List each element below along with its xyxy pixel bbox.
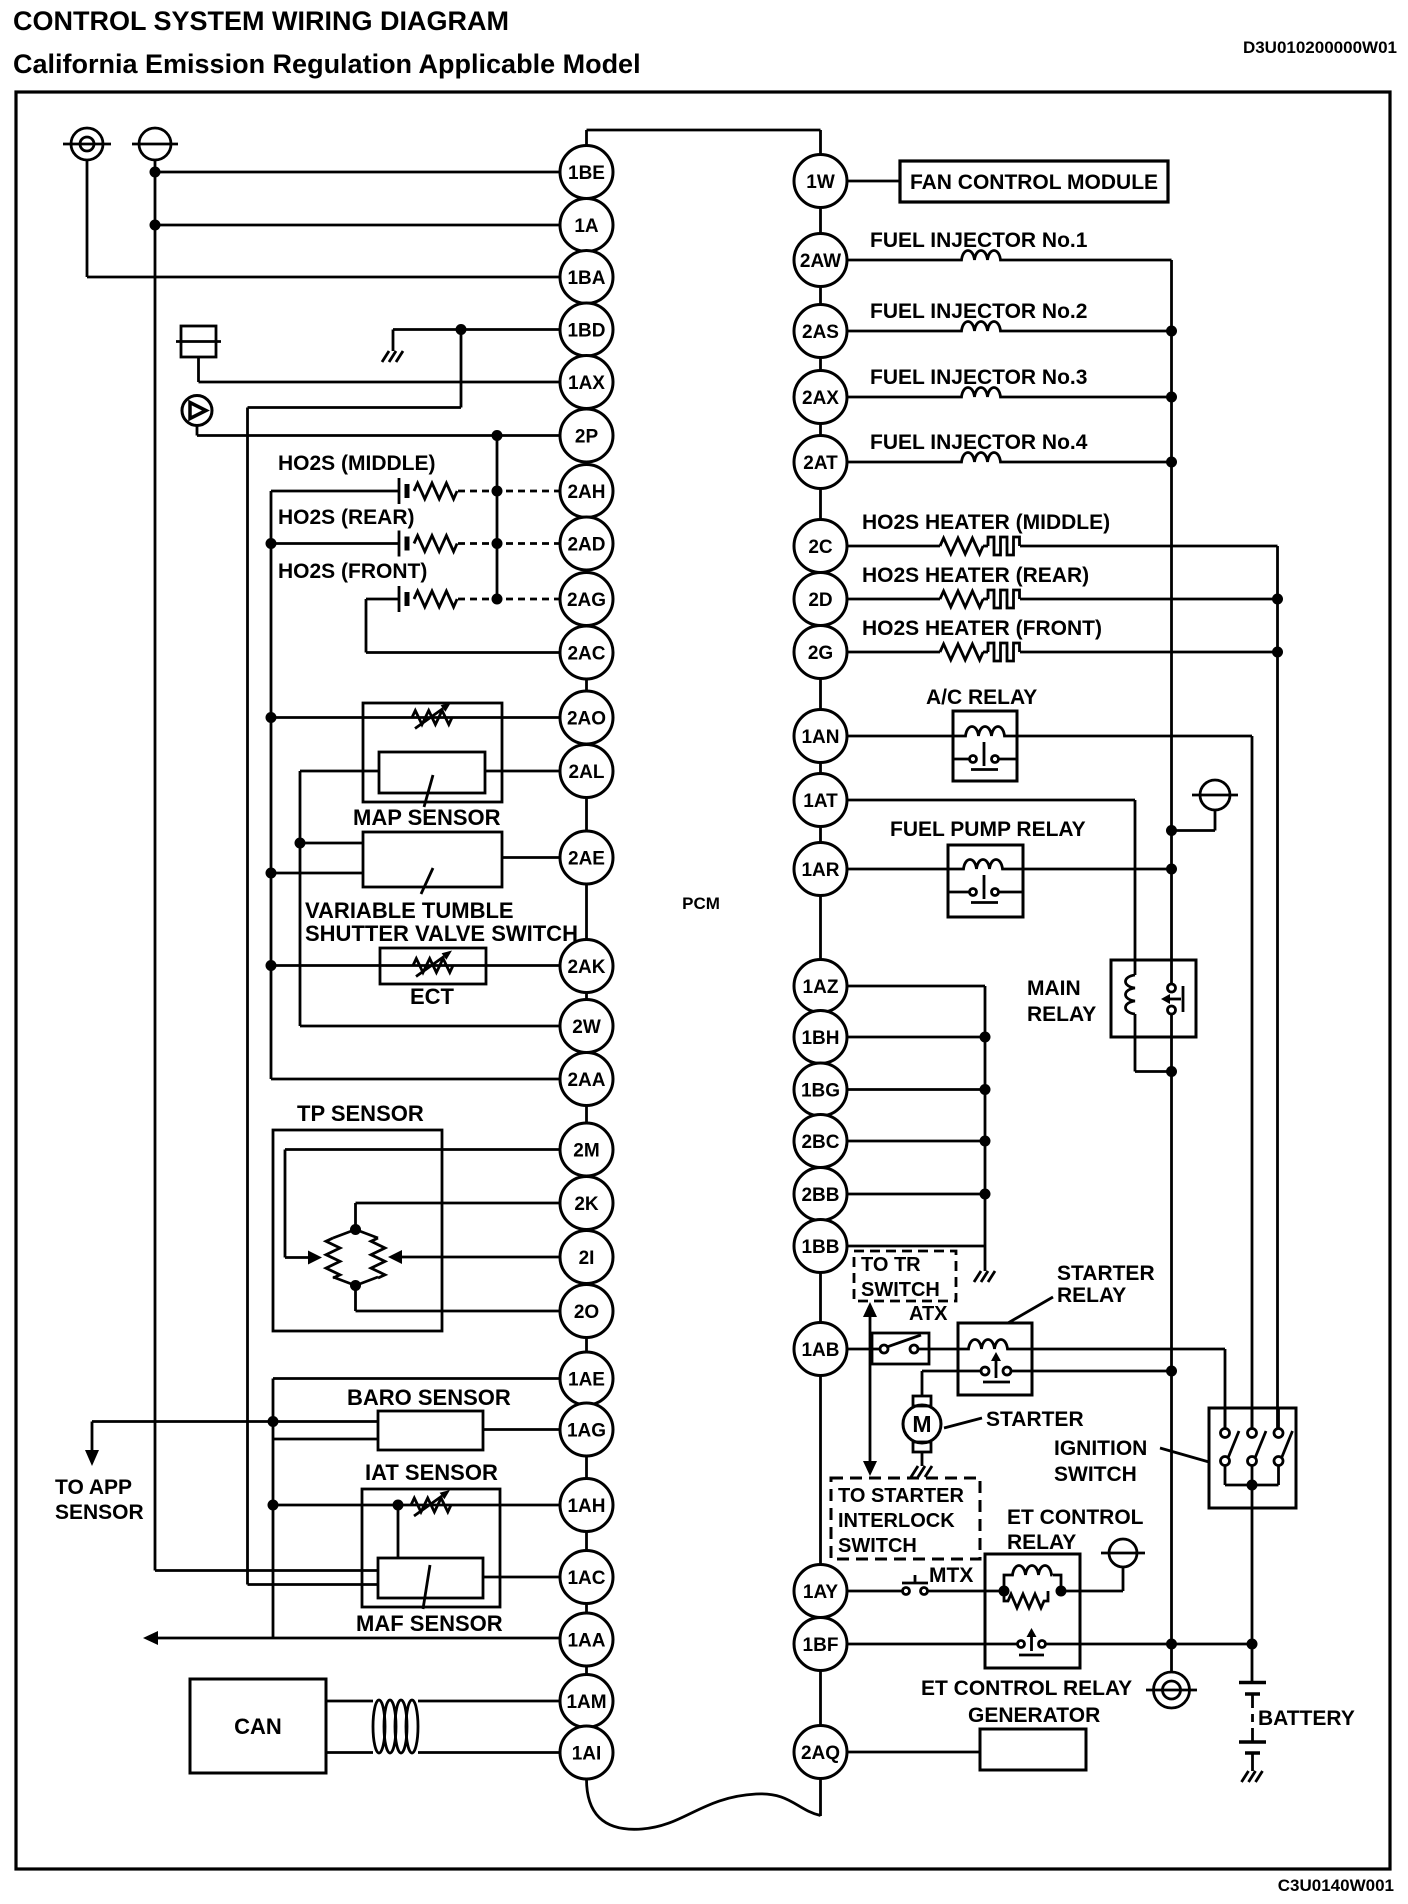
svg-text:1AM: 1AM bbox=[566, 1692, 606, 1713]
svg-text:ATX: ATX bbox=[909, 1303, 948, 1325]
svg-text:2AL: 2AL bbox=[569, 762, 605, 783]
svg-text:HO2S HEATER (MIDDLE): HO2S HEATER (MIDDLE) bbox=[862, 511, 1110, 534]
svg-text:2AG: 2AG bbox=[567, 590, 606, 611]
svg-text:2G: 2G bbox=[808, 643, 833, 664]
svg-text:2K: 2K bbox=[574, 1194, 599, 1215]
svg-text:2AX: 2AX bbox=[802, 388, 839, 409]
svg-text:1AG: 1AG bbox=[567, 1421, 606, 1442]
svg-text:1A: 1A bbox=[574, 216, 599, 237]
svg-text:2AC: 2AC bbox=[567, 644, 605, 665]
svg-text:California Emission Regulation: California Emission Regulation Applicabl… bbox=[13, 49, 641, 79]
svg-text:FAN CONTROL MODULE: FAN CONTROL MODULE bbox=[910, 171, 1158, 194]
svg-text:IGNITION: IGNITION bbox=[1054, 1437, 1147, 1460]
svg-text:FUEL INJECTOR No.4: FUEL INJECTOR No.4 bbox=[870, 431, 1088, 454]
svg-text:CONTROL SYSTEM WIRING DIAGRAM: CONTROL SYSTEM WIRING DIAGRAM bbox=[13, 6, 509, 36]
svg-text:ECT: ECT bbox=[410, 984, 455, 1009]
svg-text:BATTERY: BATTERY bbox=[1258, 1707, 1355, 1730]
svg-text:IAT SENSOR: IAT SENSOR bbox=[365, 1460, 498, 1485]
svg-text:BARO SENSOR: BARO SENSOR bbox=[347, 1385, 511, 1410]
svg-text:1BG: 1BG bbox=[801, 1081, 840, 1102]
svg-text:RELAY: RELAY bbox=[1027, 1003, 1096, 1026]
svg-text:HO2S HEATER (FRONT): HO2S HEATER (FRONT) bbox=[862, 617, 1102, 640]
svg-text:1BD: 1BD bbox=[567, 321, 605, 342]
svg-text:RELAY: RELAY bbox=[1057, 1284, 1126, 1307]
svg-text:1AE: 1AE bbox=[568, 1370, 605, 1391]
svg-text:FUEL INJECTOR No.1: FUEL INJECTOR No.1 bbox=[870, 229, 1088, 252]
svg-text:2AO: 2AO bbox=[567, 709, 606, 730]
svg-text:MAF SENSOR: MAF SENSOR bbox=[356, 1611, 503, 1636]
svg-text:1BH: 1BH bbox=[801, 1028, 839, 1049]
svg-text:1AN: 1AN bbox=[801, 727, 839, 748]
svg-text:2AD: 2AD bbox=[567, 535, 605, 556]
svg-text:2AW: 2AW bbox=[800, 251, 841, 272]
svg-text:SHUTTER VALVE SWITCH: SHUTTER VALVE SWITCH bbox=[305, 921, 578, 946]
svg-text:ET CONTROL RELAY: ET CONTROL RELAY bbox=[921, 1677, 1132, 1700]
svg-text:1AY: 1AY bbox=[803, 1582, 839, 1603]
svg-text:MTX: MTX bbox=[929, 1564, 973, 1587]
svg-text:2O: 2O bbox=[574, 1302, 599, 1323]
svg-text:2AH: 2AH bbox=[567, 482, 605, 503]
svg-text:2AA: 2AA bbox=[567, 1070, 605, 1091]
svg-text:1BB: 1BB bbox=[801, 1237, 839, 1258]
svg-text:1AX: 1AX bbox=[568, 373, 605, 394]
svg-text:2M: 2M bbox=[573, 1141, 599, 1162]
svg-text:A/C RELAY: A/C RELAY bbox=[926, 686, 1037, 709]
svg-text:TO APP: TO APP bbox=[55, 1476, 132, 1499]
svg-text:2AK: 2AK bbox=[567, 957, 605, 978]
svg-text:2BB: 2BB bbox=[801, 1185, 839, 1206]
svg-text:1AB: 1AB bbox=[801, 1340, 839, 1361]
svg-text:FUEL INJECTOR No.3: FUEL INJECTOR No.3 bbox=[870, 366, 1087, 389]
svg-text:SWITCH: SWITCH bbox=[1054, 1463, 1137, 1486]
svg-text:1W: 1W bbox=[806, 172, 835, 193]
svg-text:HO2S (FRONT): HO2S (FRONT) bbox=[278, 560, 427, 583]
svg-text:PCM: PCM bbox=[682, 894, 720, 913]
svg-text:TO TR: TO TR bbox=[861, 1254, 921, 1276]
svg-text:2AS: 2AS bbox=[802, 322, 839, 343]
svg-text:C3U0140W001: C3U0140W001 bbox=[1278, 1876, 1394, 1895]
svg-text:HO2S HEATER (REAR): HO2S HEATER (REAR) bbox=[862, 564, 1089, 587]
svg-text:2AQ: 2AQ bbox=[801, 1743, 840, 1764]
svg-text:INTERLOCK: INTERLOCK bbox=[838, 1510, 955, 1532]
svg-text:1AI: 1AI bbox=[572, 1744, 602, 1765]
svg-text:HO2S (MIDDLE): HO2S (MIDDLE) bbox=[278, 452, 436, 475]
svg-text:1AR: 1AR bbox=[801, 860, 839, 881]
svg-text:SWITCH: SWITCH bbox=[838, 1535, 917, 1557]
svg-text:2P: 2P bbox=[575, 427, 599, 448]
svg-text:SWITCH: SWITCH bbox=[861, 1279, 940, 1301]
svg-text:2C: 2C bbox=[808, 537, 833, 558]
svg-text:MAIN: MAIN bbox=[1027, 977, 1081, 1000]
svg-text:TO STARTER: TO STARTER bbox=[838, 1485, 964, 1507]
svg-text:STARTER: STARTER bbox=[986, 1408, 1084, 1431]
svg-text:2D: 2D bbox=[808, 590, 832, 611]
svg-text:M: M bbox=[912, 1411, 931, 1437]
svg-text:GENERATOR: GENERATOR bbox=[968, 1704, 1100, 1727]
svg-text:2AE: 2AE bbox=[568, 849, 605, 870]
svg-text:1AT: 1AT bbox=[803, 791, 838, 812]
svg-text:1AZ: 1AZ bbox=[803, 977, 839, 998]
svg-text:HO2S (REAR): HO2S (REAR) bbox=[278, 506, 415, 529]
svg-text:2AT: 2AT bbox=[803, 453, 838, 474]
svg-text:TP SENSOR: TP SENSOR bbox=[297, 1101, 424, 1126]
svg-text:1AA: 1AA bbox=[567, 1631, 605, 1652]
svg-text:ET CONTROL: ET CONTROL bbox=[1007, 1506, 1144, 1529]
svg-text:1BA: 1BA bbox=[567, 268, 605, 289]
svg-text:VARIABLE TUMBLE: VARIABLE TUMBLE bbox=[305, 898, 514, 923]
svg-text:MAP SENSOR: MAP SENSOR bbox=[353, 805, 501, 830]
svg-text:1AH: 1AH bbox=[567, 1496, 605, 1517]
svg-text:CAN: CAN bbox=[234, 1714, 282, 1739]
svg-text:2BC: 2BC bbox=[801, 1132, 839, 1153]
svg-text:1AC: 1AC bbox=[567, 1568, 605, 1589]
svg-text:D3U010200000W01: D3U010200000W01 bbox=[1243, 38, 1397, 57]
svg-text:2W: 2W bbox=[572, 1017, 601, 1038]
svg-text:SENSOR: SENSOR bbox=[55, 1501, 144, 1524]
svg-text:RELAY: RELAY bbox=[1007, 1531, 1076, 1554]
svg-text:1BE: 1BE bbox=[568, 163, 605, 184]
svg-text:FUEL PUMP RELAY: FUEL PUMP RELAY bbox=[890, 818, 1086, 841]
svg-text:2I: 2I bbox=[579, 1248, 595, 1269]
svg-text:STARTER: STARTER bbox=[1057, 1262, 1155, 1285]
svg-text:1BF: 1BF bbox=[803, 1635, 839, 1656]
svg-text:FUEL INJECTOR No.2: FUEL INJECTOR No.2 bbox=[870, 300, 1087, 323]
